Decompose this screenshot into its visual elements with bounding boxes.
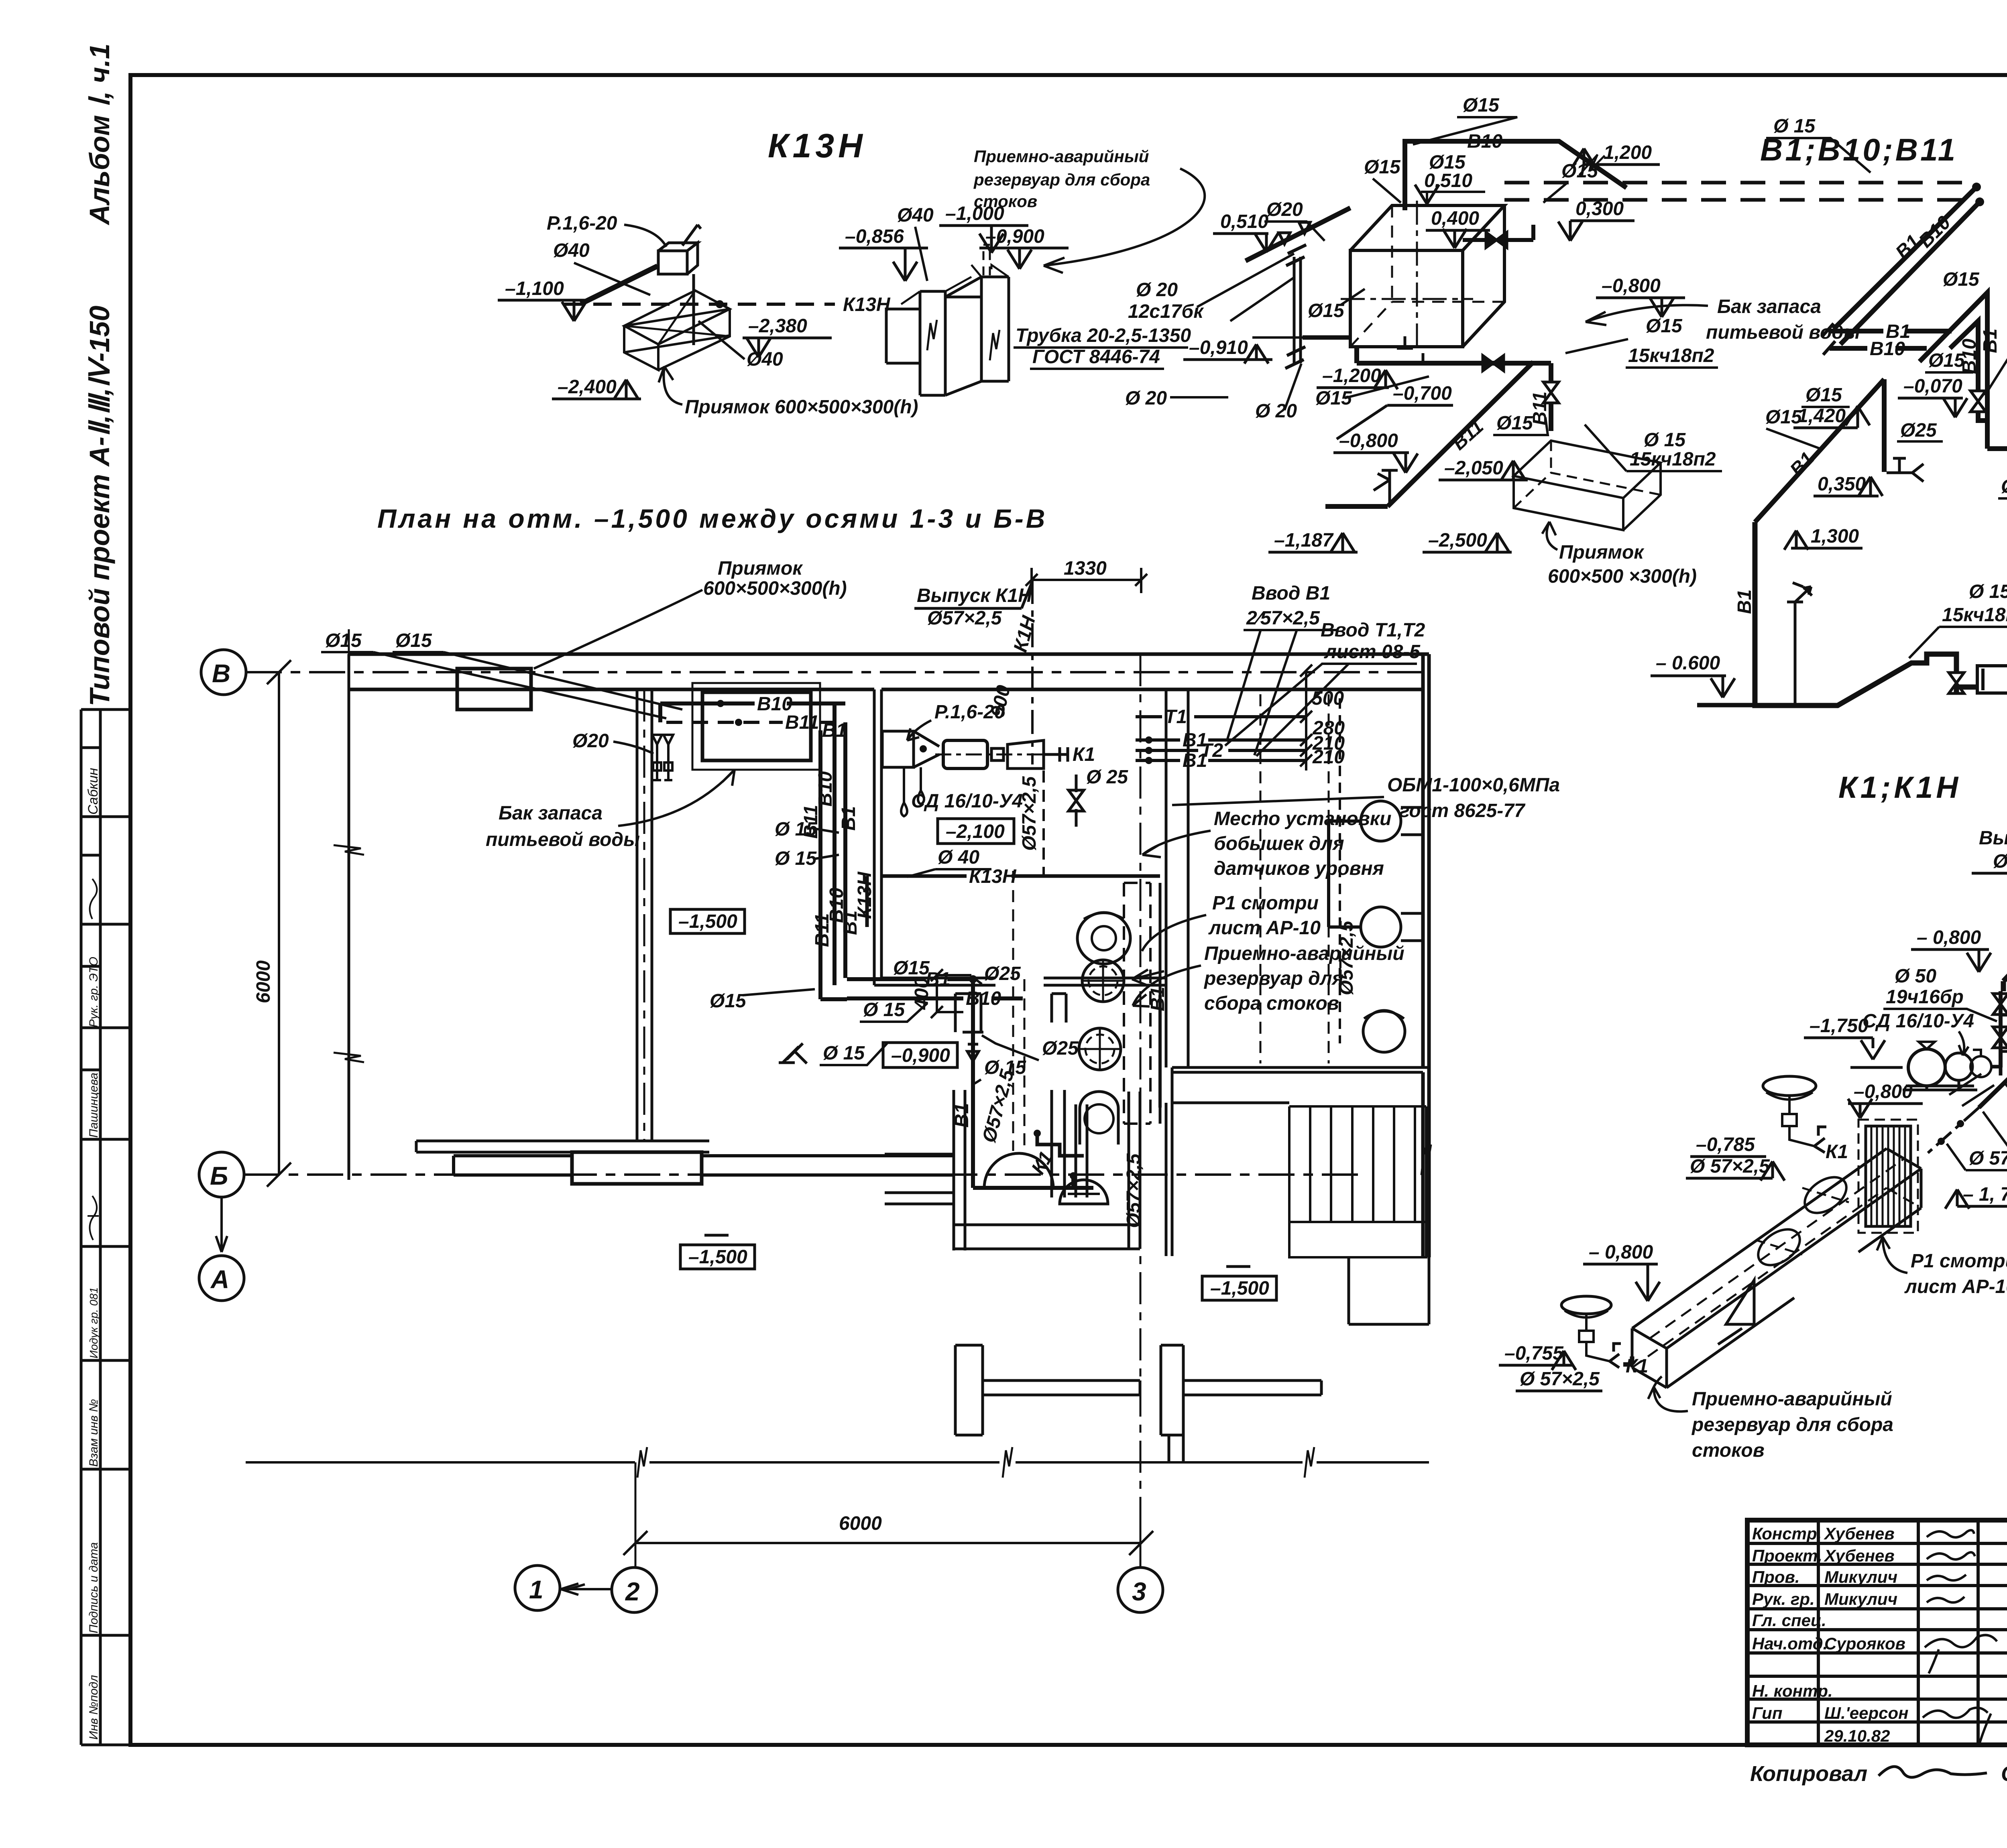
svg-text:Инв №подл: Инв №подл: [87, 1675, 100, 1740]
tube assembly between K13N and B1: [1197, 245, 1352, 368]
level mark -0,900: [979, 226, 1069, 269]
svg-text:1,200: 1,200: [1604, 142, 1652, 163]
level mark -1,000: [939, 203, 1028, 253]
svg-text:В11: В11: [812, 913, 833, 947]
svg-text:Ввод Т1,Т2: Ввод Т1,Т2: [1321, 620, 1425, 641]
label D20 12s17bk: [1128, 279, 1204, 322]
plan title: [377, 504, 1047, 533]
grid line 3: [1118, 654, 1163, 1612]
svg-text:Альбом Ⅰ, ч.1: Альбом Ⅰ, ч.1: [84, 43, 115, 226]
svg-text:В11: В11: [785, 712, 819, 733]
plan: note tank: [486, 770, 735, 850]
label SD 16/10-U4 (K1): [1862, 1010, 1974, 1055]
lower mid walls: [955, 1257, 1429, 1462]
valve on B10 riser: [1970, 391, 1986, 412]
svg-text:Ø15: Ø15: [1463, 95, 1500, 116]
filter basket K1: [1858, 1120, 1918, 1233]
boxed level -1,500 c: [1202, 1267, 1276, 1300]
svg-text:400: 400: [911, 978, 932, 1010]
svg-text:Ø15: Ø15: [1928, 350, 1965, 371]
sidebar stamp table: [81, 710, 130, 1745]
vertical sheet title: Типовой проект А-II,III,IV-150: [84, 306, 115, 706]
plan: R1 smotri note: [1142, 892, 1321, 951]
svg-text:Ø 50: Ø 50: [1895, 966, 1936, 987]
level -1,187: [1268, 530, 1358, 552]
plan: Vypusk K1N label: [914, 581, 1032, 629]
svg-text:резервуар для: резервуар для: [1203, 968, 1343, 989]
svg-text:резервуар для сбора: резервуар для сбора: [1691, 1414, 1893, 1435]
svg-text:– 0,800: – 0,800: [1917, 927, 1981, 948]
plan: vent taps left: [652, 735, 673, 780]
svg-text:3: 3: [1132, 1577, 1146, 1606]
plan: dim 1330: [1026, 558, 1147, 593]
plan: K1N outlet dashed: [1010, 580, 1040, 764]
long B1 diagonal: [1755, 379, 1884, 522]
valve D15 on B11: [1493, 413, 1548, 435]
svg-text:План на отм. –1,500 между осям: План на отм. –1,500 между осями 1-3 и Б-…: [377, 504, 1047, 533]
axis B(g) line: [199, 1152, 1365, 1197]
svg-text:В1: В1: [1147, 987, 1168, 1011]
svg-text:Проект.: Проект.: [1752, 1546, 1822, 1565]
svg-text:СД 16/10-У4: СД 16/10-У4: [911, 791, 1023, 812]
svg-text:сбора стоков: сбора стоков: [1204, 993, 1339, 1014]
svg-text:Выпуск К1Н: Выпуск К1Н: [1979, 827, 2007, 849]
pipe K1N diagonal: [2003, 834, 2007, 991]
svg-text:Ø15: Ø15: [893, 958, 930, 979]
svg-text:1330: 1330: [1064, 558, 1107, 579]
level mark -0,910: [1183, 337, 1272, 364]
svg-text:–0,755: –0,755: [1504, 1343, 1564, 1364]
svg-text:–1,100: –1,100: [505, 278, 564, 299]
svg-text:Ø15: Ø15: [1308, 300, 1345, 321]
suction pipe to reservoir: [1925, 1074, 2007, 1156]
level -0,755: [1499, 1343, 1602, 1391]
svg-text:Ø15: Ø15: [1364, 157, 1401, 178]
vertical dimension 6000: [253, 660, 291, 1187]
svg-text:6000: 6000: [253, 960, 274, 1003]
pipe B11 diagonal: [1325, 362, 1551, 506]
svg-text:К13Н: К13Н: [854, 871, 875, 919]
plan: drinking tank: [692, 683, 820, 770]
plan: label D20: [572, 730, 653, 754]
note pryamok 600x500x300: [659, 366, 918, 418]
svg-text:19ч16бр: 19ч16бр: [1886, 986, 1964, 1008]
reservoir K1: [1632, 1149, 1921, 1388]
pipe basin to reservoir: [1623, 1356, 1632, 1364]
svg-text:Ø40: Ø40: [747, 349, 783, 370]
label D25 (B10 riser valve): [1985, 335, 2007, 395]
plan: D57 rotated and valve: [1019, 766, 1128, 876]
diagonal pair B1 B10: [1834, 187, 1980, 344]
svg-text:Пашинцева: Пашинцева: [87, 1073, 100, 1138]
plan: tap bottom left of bundle: [779, 1043, 807, 1063]
svg-text:Сурояков: Сурояков: [1824, 1634, 1905, 1653]
svg-text:Микулич: Микулич: [1824, 1567, 1897, 1586]
plan: D15 labels cluster: [710, 819, 930, 1065]
title block frame: [1747, 1520, 2007, 1745]
dashed pipe K13N: [564, 294, 891, 315]
svg-text:15кч18п2: 15кч18п2: [1628, 345, 1714, 366]
label D40 (left): [553, 240, 650, 295]
svg-text:датчиков уровня: датчиков уровня: [1214, 858, 1384, 879]
svg-text:К13Н: К13Н: [969, 866, 1017, 887]
level mark -2,400: [552, 376, 641, 399]
label D40 (pit): [698, 321, 783, 370]
svg-text:В1: В1: [838, 806, 859, 831]
svg-text:Ø20: Ø20: [1266, 199, 1303, 220]
svg-text:Ø15: Ø15: [1943, 269, 1980, 290]
svg-text:– 1, 750: – 1, 750: [1963, 1184, 2007, 1205]
svg-text:Ш.'еерсон: Ш.'еерсон: [1824, 1704, 1909, 1722]
svg-text:Рук. гр.: Рук. гр.: [1752, 1590, 1815, 1608]
svg-text:бобышек для: бобышек для: [1214, 833, 1344, 854]
svg-text:В1: В1: [1980, 329, 2001, 353]
section header K13N: [768, 127, 867, 165]
label -0,700: [1337, 383, 1453, 439]
wall along B(g) axis: [454, 1156, 954, 1175]
label D15 left: [1364, 157, 1401, 203]
svg-text:Хубенев: Хубенев: [1824, 1546, 1895, 1565]
plan: 900 rotated: [987, 683, 1015, 720]
plan: toilet fixtures: [1361, 801, 1423, 1052]
valve stack K1: [1993, 990, 2007, 1067]
svg-text:–1,750: –1,750: [1810, 1015, 1869, 1037]
svg-text:–2,050: –2,050: [1444, 457, 1503, 479]
label D50 19ch16br: [1883, 966, 1997, 1021]
svg-text:В: В: [212, 659, 230, 688]
pipe B10 top: [1405, 131, 1626, 210]
title block signature rows: [1752, 1524, 1909, 1745]
svg-text:Ø40: Ø40: [553, 240, 590, 261]
title block signatures (scribbles): [1923, 1530, 1997, 1746]
grid line 1: [334, 629, 364, 1180]
svg-text:Ввод В1: Ввод В1: [1252, 583, 1330, 604]
label D25 bottom mid: [1998, 466, 2007, 498]
svg-text:1: 1: [529, 1575, 543, 1604]
svg-text:Ø 15: Ø 15: [1969, 581, 2007, 602]
svg-text:0,510: 0,510: [1424, 170, 1472, 191]
svg-text:1,300: 1,300: [1811, 526, 1859, 547]
label D15 right riser: [1543, 161, 1598, 203]
plan: SD label: [911, 791, 1023, 812]
plan: sink oval: [1077, 913, 1130, 964]
pump room left wall: [874, 689, 881, 985]
label D50 30ch47br b: [1983, 1112, 2007, 1158]
svg-text:Ø 57×2,5: Ø 57×2,5: [1690, 1156, 1770, 1177]
pit (priyamok) B11: [1514, 441, 1661, 530]
plan: reservoir dashed outline: [1124, 883, 1160, 1124]
svg-text:Хубенев: Хубенев: [1824, 1524, 1895, 1543]
svg-text:Приемно-аварийный: Приемно-аварийный: [1692, 1389, 1892, 1410]
plan: 400 dim: [911, 969, 971, 1018]
svg-text:К1;К1Н: К1;К1Н: [1838, 771, 1961, 805]
plan: Vvod B1 labels: [1227, 583, 1337, 755]
svg-text:Ø15: Ø15: [325, 630, 362, 651]
label D40 (reservoir): [897, 205, 934, 281]
svg-text:–1,500: –1,500: [1210, 1278, 1269, 1299]
vertical sheet title: Альбом I, ч.1: [84, 43, 115, 226]
svg-text:Ø40: Ø40: [897, 205, 934, 226]
small tank and valve bottom mid: [1949, 666, 2007, 693]
section header K1;K1N: [1838, 771, 1961, 805]
grid line 2: [612, 689, 657, 1612]
axis2 wall: [637, 689, 652, 1141]
pump room bottom wall: [874, 978, 1166, 985]
label D15 1,420: [1793, 384, 1870, 428]
stub B10: [1823, 338, 1927, 360]
svg-text:Т1: Т1: [1164, 706, 1187, 728]
thick riser to cube: [581, 266, 657, 304]
note pryamok B11: [1542, 522, 1697, 587]
plan: pryamok note top: [457, 558, 847, 710]
svg-text:Ø 15: Ø 15: [1773, 116, 1816, 137]
label D20 lower left: [1315, 376, 1429, 409]
plan: label R.1,6-20: [907, 701, 1005, 740]
svg-text:–1,500: –1,500: [678, 911, 737, 932]
tap on 0,350 line: [1887, 458, 1924, 482]
svg-text:В10: В10: [1467, 131, 1502, 152]
svg-text:Иодук гр. 081: Иодук гр. 081: [88, 1287, 100, 1358]
plan: misc short pipes toilets: [1123, 698, 1360, 1228]
svg-text:Нач.отд.: Нач.отд.: [1752, 1634, 1828, 1653]
svg-text:–2,400: –2,400: [558, 376, 617, 398]
svg-text:–0,800: –0,800: [1602, 275, 1661, 297]
note tank label: [1586, 296, 1860, 343]
svg-text:–1,187: –1,187: [1274, 530, 1334, 551]
svg-text:0,350: 0,350: [1818, 474, 1866, 495]
svg-text:–0,785: –0,785: [1696, 1134, 1755, 1155]
svg-text:В10: В10: [1870, 338, 1905, 360]
svg-text:–1,500: –1,500: [688, 1246, 747, 1268]
svg-text:Ø 25: Ø 25: [1086, 766, 1128, 788]
svg-text:лист АР-10: лист АР-10: [1904, 1276, 2007, 1297]
svg-text:Р1 смотри: Р1 смотри: [1911, 1250, 2007, 1272]
level -0,800 (pump): [1848, 1081, 1923, 1118]
chevron pipe B1 rise: [1919, 293, 2001, 422]
svg-text:Приямок 600×500×300(h): Приямок 600×500×300(h): [685, 396, 918, 418]
label D15 15kch18p2 (bottom mid): [1909, 581, 2007, 658]
svg-text:А: А: [210, 1265, 229, 1294]
note priemno (K1): [1648, 1376, 1893, 1461]
svg-text:Ø 15: Ø 15: [823, 1043, 865, 1064]
svg-text:Констр.: Констр.: [1752, 1524, 1822, 1543]
label D15 top: [1413, 95, 1517, 144]
svg-text:Ø 57×2,5: Ø 57×2,5: [1520, 1368, 1600, 1390]
plan: D40 label: [907, 847, 991, 877]
svg-text:–0,900: –0,900: [985, 226, 1044, 247]
svg-text:К13Н: К13Н: [768, 127, 867, 165]
svg-text:Ø15: Ø15: [1646, 315, 1683, 337]
svg-text:Приямок: Приямок: [718, 558, 803, 579]
horizontal dimension 6000: [623, 1513, 1153, 1555]
svg-text:Копировал: Копировал: [1750, 1762, 1867, 1786]
level mark -0,856: [839, 226, 928, 281]
svg-text:–0,800: –0,800: [1339, 430, 1398, 451]
svg-text:Ø 20: Ø 20: [1255, 401, 1297, 422]
svg-text:–2,100: –2,100: [946, 821, 1005, 842]
svg-text:2∕57×2,5: 2∕57×2,5: [1246, 608, 1320, 629]
svg-text:Выпуск К1Н: Выпуск К1Н: [917, 585, 1032, 606]
label D57x2,5 (discharge): [2005, 1084, 2007, 1112]
svg-text:Гл. спец.: Гл. спец.: [1752, 1611, 1826, 1630]
svg-text:К1: К1: [1826, 1141, 1848, 1163]
shelf along B axis: [416, 1141, 709, 1184]
svg-text:–0,856: –0,856: [845, 226, 904, 247]
svg-text:Подпись и дата: Подпись и дата: [87, 1542, 100, 1633]
stairs: [1289, 1106, 1431, 1257]
label F15 mid: [1943, 269, 1980, 290]
level -1,750 a: [1804, 1015, 1903, 1067]
tank valve pair right: [1463, 225, 1533, 248]
plan: priemno note: [1132, 943, 1404, 1014]
svg-text:–0,900: –0,900: [891, 1045, 950, 1066]
svg-text:600×500 ×300(h): 600×500 ×300(h): [1548, 566, 1697, 587]
svg-text:Гип: Гип: [1752, 1704, 1783, 1722]
label D20 bottom: [1125, 364, 1301, 422]
washbasin left (K1): [1561, 1296, 1648, 1377]
pit (priyamok) K13N: [624, 291, 730, 370]
svg-text:15кч18п2: 15кч18п2: [1942, 604, 2007, 626]
svg-text:Ø 15: Ø 15: [863, 999, 905, 1021]
svg-text:29.10.82: 29.10.82: [1824, 1726, 1890, 1745]
plan: Vvod T1T2 labels: [1225, 620, 1425, 756]
level -0,800 (basins): [1583, 1242, 1660, 1301]
label D15 far left: [1765, 407, 1822, 449]
svg-text:Рук. гр. ЭТО: Рук. гр. ЭТО: [87, 957, 100, 1027]
plan: T1 B1 T2 B1 entry pipes: [1136, 706, 1306, 771]
level mark -1,100: [498, 278, 587, 321]
plan: floor drain: [1078, 959, 1125, 1071]
boxed level -0,500: [883, 1043, 957, 1067]
label D15 (riser): [1925, 350, 1973, 372]
dimension 0,300 (tank): [1558, 198, 1635, 241]
plan: boxed -2,100: [938, 819, 1014, 844]
plan: B10 pipe: [660, 693, 845, 722]
dimension 0,350: [1814, 474, 1883, 496]
svg-text:–1,000: –1,000: [945, 203, 1004, 224]
svg-text:ОБМ1-100×0,6МПа: ОБМ1-100×0,6МПа: [1387, 775, 1560, 796]
svg-text:Ø 15: Ø 15: [984, 1057, 1026, 1078]
svg-text:Микулич: Микулич: [1824, 1590, 1897, 1608]
plan: pump room equipment: [882, 731, 1095, 816]
svg-text:Р.1,6-20: Р.1,6-20: [547, 213, 617, 234]
svg-text:Р1 смотри: Р1 смотри: [1212, 892, 1319, 914]
label R.1,6-20: [547, 213, 666, 247]
svg-text:Ø 15: Ø 15: [1644, 429, 1686, 451]
plan: washbasin bottom: [1060, 1180, 1108, 1204]
svg-text:600×500×300(h): 600×500×300(h): [703, 578, 847, 599]
step and bottom run B1: [1978, 357, 2007, 460]
left wall: [348, 654, 350, 1180]
label D15 15kch18p2 (tank right): [1565, 315, 1718, 368]
svg-text:Ø 57×2,5: Ø 57×2,5: [1969, 1148, 2007, 1169]
right wall: [1423, 654, 1429, 1257]
svg-text:Ø20: Ø20: [572, 730, 609, 752]
bottom note: Копировал: [1750, 1761, 2007, 1786]
level -0,070: [1898, 376, 1967, 417]
plan: lower room pipes: [885, 994, 1140, 1250]
plan: OBM1 note: [1172, 775, 1560, 821]
label D15 on dashed: [1766, 116, 1871, 173]
label D15 15kch18p2 (pit): [1585, 425, 1722, 471]
svg-text:– 0,800: – 0,800: [1589, 1242, 1653, 1263]
section header B1;B10;B11: [1760, 132, 1958, 167]
svg-text:Бак запаса: Бак запаса: [1717, 296, 1821, 317]
svg-text:Сверил: Сверил: [2001, 1762, 2007, 1786]
svg-text:В1: В1: [1734, 590, 1755, 614]
svg-text:Ø 40: Ø 40: [938, 847, 979, 868]
svg-text:Ø57×2,5: Ø57×2,5: [1019, 776, 1040, 851]
label D20 with arrow: [1264, 199, 1325, 241]
label D25 left: [1897, 420, 1943, 441]
svg-text:–1,200: –1,200: [1322, 365, 1381, 386]
level -0,800 (K1N): [1911, 927, 1991, 972]
svg-text:Ø15: Ø15: [1765, 407, 1802, 428]
svg-text:К13Н: К13Н: [843, 294, 891, 315]
svg-text:6000: 6000: [839, 1513, 882, 1534]
svg-text:12с17бк: 12с17бк: [1128, 301, 1204, 322]
svg-text:Н. контр.: Н. контр.: [1752, 1681, 1833, 1700]
plan: B11 dashed pipe: [666, 712, 845, 733]
level -2,500: [1423, 530, 1512, 552]
svg-text:Ø 25: Ø 25: [2001, 476, 2007, 497]
plan: lower B1 riser and fittings: [951, 871, 1093, 1188]
reservoir tank K13N: [886, 245, 1009, 395]
tank outlet bottom: [1357, 336, 1559, 431]
svg-text:1,420: 1,420: [1797, 405, 1846, 427]
washbasin right (K1): [1763, 1076, 1848, 1163]
plan: lower drain circle: [1080, 1092, 1118, 1145]
svg-text:Ø25: Ø25: [1900, 420, 1937, 441]
plan: mesto ustanovki note: [1142, 808, 1391, 879]
svg-text:0,400: 0,400: [1431, 208, 1479, 229]
level mark -2,380: [743, 315, 832, 357]
svg-text:Бак запаса: Бак запаса: [499, 803, 603, 824]
svg-text:Ø57×2,5: Ø57×2,5: [927, 608, 1002, 629]
svg-text:лист АР-10: лист АР-10: [1208, 917, 1321, 939]
svg-text:–0,070: –0,070: [1903, 376, 1962, 397]
svg-text:Ø57×2,5: Ø57×2,5: [1336, 920, 1357, 995]
svg-text:–2,500: –2,500: [1428, 530, 1487, 551]
svg-text:СД 16/10-У4: СД 16/10-У4: [1862, 1010, 1974, 1032]
stub B1: [1822, 321, 1952, 342]
vvod B1 lower drop: [1734, 522, 1977, 705]
svg-text:В1: В1: [1183, 750, 1207, 771]
svg-text:Ø 15: Ø 15: [775, 848, 817, 869]
label Trubka GOST: [1014, 325, 1191, 369]
svg-text:–0,800: –0,800: [1854, 1081, 1913, 1102]
svg-text:Сабкин: Сабкин: [85, 768, 101, 815]
svg-text:0,510: 0,510: [1220, 211, 1268, 232]
svg-text:Приемно-аварийный: Приемно-аварийный: [974, 147, 1149, 166]
note: priyomno-avariyny rezervuar (K13N): [973, 147, 1205, 273]
svg-text:Трубка 20-2,5-1350: Трубка 20-2,5-1350: [1016, 325, 1191, 346]
riser from cube to pit: [692, 274, 695, 345]
note R1 smotri (K1): [1877, 1237, 2007, 1297]
toilet block walls: [1166, 689, 1429, 1256]
svg-text:Ø 20: Ø 20: [1125, 388, 1167, 409]
plan: B1 B10 lower run: [847, 969, 1023, 1009]
svg-text:стоков: стоков: [1692, 1440, 1765, 1461]
building top wall: [349, 654, 1429, 689]
bottom break line: [246, 1447, 1429, 1478]
svg-text:питьевой воды: питьевой воды: [486, 829, 640, 850]
pump K1: [1903, 1042, 2001, 1090]
dimension 1,300 bottom: [1784, 526, 1862, 550]
svg-text:Ø15: Ø15: [710, 990, 747, 1012]
svg-text:В10: В10: [815, 771, 836, 807]
level -1,750 b: [1945, 1184, 2007, 1209]
